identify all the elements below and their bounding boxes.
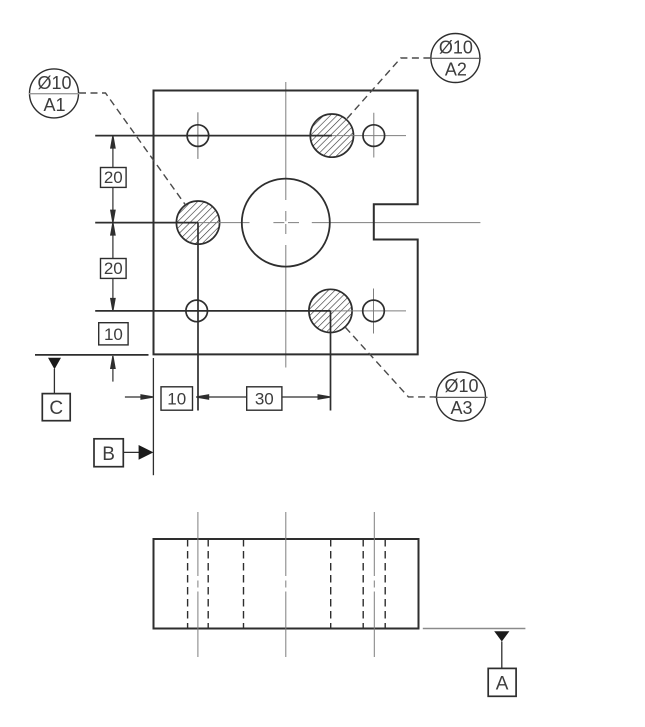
hole A3 (hatched) — [309, 289, 352, 332]
side view rectangle — [154, 539, 419, 629]
svg-text:A3: A3 — [450, 398, 472, 418]
svg-text:20: 20 — [104, 259, 123, 278]
dimension box 20 (lower) — [101, 259, 127, 279]
svg-text:10: 10 — [104, 325, 123, 344]
svg-text:20: 20 — [104, 168, 123, 187]
middle row line — [95, 222, 198, 224]
balloon A1 — [29, 69, 80, 118]
svg-text:10: 10 — [167, 390, 186, 409]
dimension box 30 — [247, 387, 282, 410]
hidden line big hole right edge — [330, 539, 332, 629]
centerline vertical (big hole, top view) — [285, 82, 287, 368]
leader to balloon A2 (dashed) — [346, 58, 430, 120]
hidden line right small holes left edge — [362, 539, 364, 629]
hidden line right small holes right edge — [384, 539, 386, 629]
side view centerline left column — [197, 512, 199, 657]
small hole top-left — [187, 125, 209, 147]
svg-text:B: B — [102, 444, 115, 465]
side view centerline middle column — [285, 512, 287, 657]
centerline crosshair small hole bottom-right — [331, 289, 407, 334]
hidden line big hole left edge — [243, 539, 245, 629]
small hole bottom-left — [186, 300, 208, 322]
extension of bottom edge to left — [35, 354, 149, 356]
centerline crosshair small hole top-right — [332, 113, 406, 158]
horizontal dimension line — [125, 395, 331, 399]
svg-text:Ø10: Ø10 — [444, 376, 478, 396]
dimension box 20 (upper) — [101, 168, 127, 188]
bottom row line — [95, 310, 330, 312]
svg-text:A1: A1 — [43, 95, 65, 115]
small hole bottom-right — [363, 300, 385, 322]
centerline horizontal (middle row, top view) — [198, 222, 480, 224]
datum B — [94, 439, 153, 467]
hidden line small holes right edge — [207, 539, 209, 629]
extension line below hole A1 — [197, 223, 199, 411]
big center hole — [242, 179, 330, 267]
plate outline (top view) — [154, 91, 418, 355]
svg-text:30: 30 — [255, 390, 274, 409]
extension line below bottom-left corner — [152, 358, 154, 475]
datum A — [488, 631, 516, 696]
centerline vertical small hole top-left — [197, 112, 199, 159]
svg-text:A: A — [496, 673, 509, 694]
datum C — [42, 358, 70, 421]
small hole top-right — [363, 125, 385, 147]
leader to balloon A3 (dashed) — [345, 327, 437, 397]
balloon A2 — [430, 34, 481, 83]
svg-text:Ø10: Ø10 — [37, 73, 71, 93]
balloon A3 — [435, 372, 488, 421]
extension line below hole A3 — [330, 311, 332, 411]
leader to balloon A1 (dashed) — [79, 93, 186, 205]
side view centerline right column — [373, 512, 375, 657]
top row line — [95, 135, 332, 137]
dimension box 10 (horizontal dim) — [161, 387, 193, 410]
dimension box 10 (vertical dim) — [99, 323, 128, 345]
hole A2 (hatched) — [310, 114, 353, 157]
hole A1 (hatched) — [176, 201, 219, 244]
vertical dimension line — [111, 136, 115, 382]
hidden line small holes left edge — [187, 539, 189, 629]
svg-text:A2: A2 — [445, 60, 467, 80]
extension of side view bottom edge to right — [423, 628, 526, 630]
svg-text:Ø10: Ø10 — [439, 38, 473, 58]
svg-text:C: C — [49, 398, 63, 419]
